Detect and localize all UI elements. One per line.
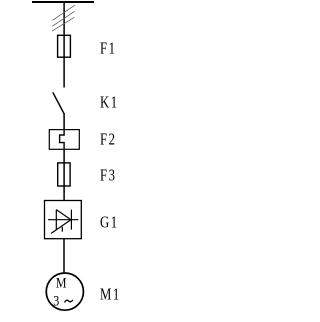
supply busbar — [32, 1, 94, 3]
wire: busbar to F1 — [63, 1, 65, 35]
wire: K1 to F2 — [63, 113, 65, 129]
svg-text:F2: F2 — [100, 131, 116, 149]
rectifier G1 — [45, 201, 82, 239]
3-phase slash marks — [52, 5, 75, 31]
svg-text:3: 3 — [53, 292, 59, 309]
svg-text:K1: K1 — [100, 94, 119, 112]
svg-text:G1: G1 — [100, 214, 119, 232]
svg-text:F3: F3 — [100, 167, 116, 185]
wire: F1 to K1 — [63, 57, 65, 87]
svg-text:M: M — [56, 274, 67, 291]
svg-text:M1: M1 — [100, 286, 121, 304]
wire: F2 to F3 — [63, 149, 65, 163]
overload relay F2 — [49, 130, 79, 150]
fuse F3 — [58, 163, 70, 186]
wire: G1 to M1 — [63, 239, 65, 273]
wire: F3 to G1 — [63, 186, 65, 201]
svg-text:F1: F1 — [100, 40, 116, 58]
motor M1 — [46, 273, 83, 310]
contact K1 (blade) — [53, 92, 64, 114]
fuse F1 — [58, 35, 71, 57]
